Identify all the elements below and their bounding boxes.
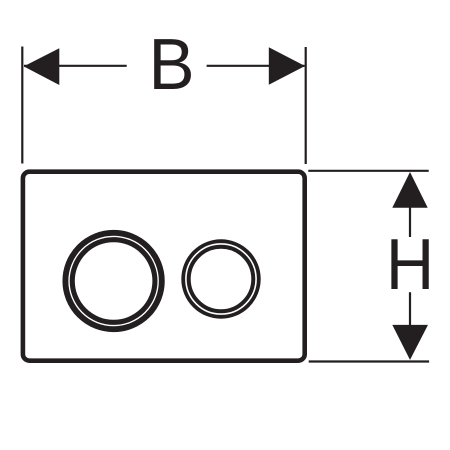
flush plate outline	[23, 172, 305, 361]
dimension B line right segment	[207, 65, 305, 67]
dimension H upper line segment	[409, 207, 411, 238]
left button inner ring	[72, 240, 155, 323]
right button inner ring	[189, 247, 254, 312]
dimension H bottom extension line	[309, 360, 429, 362]
dimension B right arrowhead	[269, 47, 305, 84]
dimension B left extension line	[21, 47, 23, 164]
dimension B left arrowhead	[24, 48, 60, 85]
dimension H down arrowhead	[392, 325, 428, 360]
dimension H up arrowhead	[392, 172, 427, 208]
dimension B line left segment	[24, 65, 127, 67]
dimension H top extension line	[308, 170, 428, 172]
svg-text:B: B	[148, 24, 194, 105]
left button outer ring	[65, 233, 161, 329]
right button outer ring	[183, 241, 259, 317]
dimension H lower line segment	[409, 292, 411, 325]
dimension B right extension line	[305, 47, 307, 164]
